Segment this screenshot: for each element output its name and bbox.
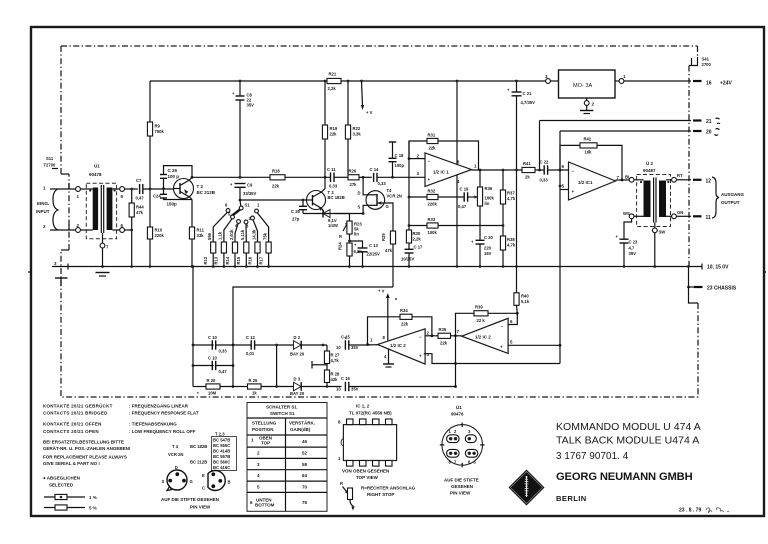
svg-text:R21: R21 [329,72,337,77]
svg-text:KOMMANDO MODUL U 474 A: KOMMANDO MODUL U 474 A [556,421,701,433]
svg-text:S11: S11 [46,156,54,161]
svg-text:21: 21 [706,119,712,125]
svg-text:556: 556 [207,232,212,240]
svg-text:BC 416C: BC 416C [213,465,230,470]
base line from C9 to T3 [240,199,307,201]
svg-text:C7: C7 [136,178,142,183]
+V arrow IC2 pin8 supply [378,289,397,341]
resistor R17 [258,232,271,268]
svg-text:INPUT: INPUT [36,209,50,214]
svg-text:BC 547B: BC 547B [213,438,230,443]
svg-text:C 10: C 10 [208,335,218,340]
T4 gate wire to R29 [385,203,394,231]
Neumann diamond logo [509,470,545,506]
svg-text:47k: 47k [136,210,144,215]
svg-text:T 2: T 2 [197,184,204,189]
svg-text:22k: 22k [429,146,437,151]
capacitor C22 [540,160,569,183]
svg-text:R41: R41 [523,161,531,166]
svg-text:−: − [419,335,422,340]
svg-text:*: * [197,391,199,396]
svg-text:GEORG NEUMANN GMBH: GEORG NEUMANN GMBH [556,471,693,483]
capacitor C9 [230,176,256,200]
svg-text:22k: 22k [330,132,338,137]
svg-text:G: G [386,204,389,209]
transformer pin 5 [120,187,138,199]
resistor R30 [406,226,421,250]
IC2a pin2 line / resistor R35 [425,327,462,346]
svg-text:C 21: C 21 [523,91,533,96]
svg-text:+ V: + V [378,289,385,294]
svg-text:27p: 27p [292,217,300,222]
resistor R16 [247,229,260,268]
svg-text:+24V: +24V [720,81,732,87]
wire 20 vertical to IC amp nodes [559,131,562,345]
svg-text:R40: R40 [521,294,529,299]
diode D3 BAY20 [290,377,342,397]
svg-text:3,3k: 3,3k [353,132,362,137]
node 2 input terminal [43,223,93,232]
svg-text:4,7k: 4,7k [331,358,340,363]
transistor types list [168,432,237,471]
svg-text:R44: R44 [136,205,144,210]
svg-text:R 27: R 27 [331,353,341,358]
svg-text:TL 072(RC 4559 NB): TL 072(RC 4559 NB) [349,411,392,416]
IC1,2 type caption [349,404,392,416]
op-amp IC1b [562,162,620,200]
svg-text:2,61k: 2,61k [229,229,234,240]
capacitor C14 [370,167,426,186]
svg-text:100k: 100k [428,230,438,235]
svg-text:BC 182B: BC 182B [328,195,345,200]
svg-text:16k: 16k [585,150,593,155]
terminal 10,15 0V [702,264,729,271]
date and signature [679,508,729,514]
transformer U1 90478 [86,163,119,239]
svg-text:GAIN(dB): GAIN(dB) [290,427,311,432]
T2 collector line [192,176,330,178]
legend 5% resistor [44,505,97,511]
capacitor C8 [232,80,254,178]
svg-text:C: C [202,486,205,491]
svg-text:C 26: C 26 [291,209,301,214]
svg-text:4,7: 4,7 [629,246,635,251]
svg-text:R24: R24 [338,242,343,250]
resistor R22 [345,80,361,175]
svg-text:C 14: C 14 [370,167,380,172]
svg-text:12: 12 [706,179,712,185]
brace AUSGANG OUTPUT [712,177,745,218]
svg-text:FOR REPLACEMENT PLEASE ALWA: FOR REPLACEMENT PLEASE ALWAYS [43,455,127,460]
terminal WS [623,211,644,219]
module boundary dash-dot [61,46,698,397]
svg-text:S: S [358,205,361,210]
svg-text:11: 11 [706,215,712,221]
terminal RT [666,173,691,182]
svg-text:16: 16 [706,81,712,87]
node 1 input terminal [43,183,93,199]
svg-text:R32: R32 [428,189,436,194]
svg-text:R22: R22 [353,126,361,131]
oscillator loop wire to D3 line [454,336,457,388]
svg-text:VERSTÄRK.: VERSTÄRK. [289,420,315,426]
svg-text:Ü 2: Ü 2 [646,160,654,166]
connector caption [444,478,479,496]
svg-text:BC 212B: BC 212B [190,460,207,465]
svg-text:35V: 35V [247,103,255,108]
svg-text:750k: 750k [155,129,165,134]
svg-text:23 . 8 . 79: 23 . 8 . 79 [679,508,701,514]
resistor R20 10M [193,378,248,396]
resistor R18 [270,169,285,189]
svg-text:4,7k: 4,7k [507,196,516,201]
title block text [556,421,701,503]
svg-text:0,33: 0,33 [378,181,387,186]
svg-text:STELLUNG: STELLUNG [252,421,277,426]
svg-text:VCR 2N: VCR 2N [387,194,402,199]
svg-text:R33: R33 [428,217,436,222]
T4 source wire [334,205,367,215]
svg-text:R18: R18 [272,169,280,174]
svg-text:C24: C24 [153,194,161,199]
svg-text:1,1k: 1,1k [218,231,223,240]
transistor T3 BC182B [307,177,345,213]
svg-text:C 19: C 19 [460,187,470,192]
svg-text:−: − [572,169,575,174]
svg-text:IC 1, 2: IC 1, 2 [356,404,370,409]
switch S1 rotary [225,199,260,229]
zener diode D1 9,1V [303,210,338,229]
svg-text:PIN VIEW: PIN VIEW [190,505,211,510]
svg-text:33/35V: 33/35V [243,191,256,196]
svg-text:27k: 27k [350,182,358,187]
svg-text:R31: R31 [428,133,436,138]
svg-text:1/2 IC 1: 1/2 IC 1 [433,170,449,175]
svg-text:BL: BL [625,175,631,180]
terminal 21 [540,118,721,125]
svg-text:R: R [339,234,342,239]
terminal 16 +24V [693,81,732,87]
svg-text:R12: R12 [203,256,208,264]
ground below transformer [96,265,110,276]
svg-text:0,47: 0,47 [458,204,467,209]
svg-text:14,3k: 14,3k [251,229,256,240]
svg-text:+: + [572,189,575,194]
svg-text:B: B [228,480,231,485]
svg-text:AUSGANG: AUSGANG [721,192,745,197]
svg-text:C 23: C 23 [629,240,639,245]
potentiometer legend R [340,481,355,511]
svg-text:WS: WS [623,211,630,216]
svg-text:AUF DIE STIFTE: AUF DIE STIFTE [444,478,479,483]
svg-text:0,47: 0,47 [219,369,228,374]
svg-text:Ü1: Ü1 [94,163,100,169]
svg-text:C 20: C 20 [484,235,494,240]
svg-text:90487: 90487 [643,168,656,173]
resistor R39 feedback [456,305,519,336]
notes text block contacts 20/21 [43,403,199,435]
svg-text:R17: R17 [258,256,263,264]
svg-text:2700: 2700 [702,62,712,67]
resistor R27 47k [324,345,340,370]
svg-text:+: + [428,177,431,182]
IC2b pin5 wire [508,344,560,346]
svg-text:+: + [419,354,422,359]
svg-text:Ü1: Ü1 [456,404,462,410]
svg-text:22k: 22k [272,184,280,189]
svg-text:R30: R30 [413,231,421,236]
left feed vertical to filter network [192,265,195,386]
svg-text:BOTTOM: BOTTOM [255,503,275,508]
terminal 11 [693,215,711,221]
IC DIP package top view [338,419,397,466]
svg-text:R39: R39 [475,305,483,310]
IC1a output line [472,169,541,172]
wire 21 vertical to R41/C22 node [539,121,541,171]
resistor R12 [203,232,216,268]
svg-text:35V: 35V [629,251,637,256]
svg-text:22k: 22k [401,322,409,327]
legend selected [43,476,80,488]
svg-text:C 13: C 13 [369,243,379,248]
terminal 3 / 0V rail [52,261,702,270]
svg-text:SW: SW [659,230,666,235]
chassis ground at input [55,278,68,286]
diode D2 BAY20 [290,335,327,357]
svg-text:E: E [202,473,205,478]
svg-text:R9: R9 [155,124,161,129]
resistor R28 [324,370,340,388]
0V rail junction dots [130,265,193,268]
capacitor C11 [327,167,338,189]
terminal 23 chassis [687,265,737,303]
IC1b output wire to BL [616,179,630,181]
svg-text:: FREQUENZGANG LINEAR: : FREQUENZGANG LINEAR [129,404,189,409]
svg-text:AUF DIE STIFTE GESEHEN: AUF DIE STIFTE GESEHEN [161,497,219,502]
svg-text:POSITION: POSITION [252,427,274,432]
svg-text:−: − [501,324,504,329]
resistor R31 feedback [409,133,479,171]
junction vertical between filter lines [275,344,278,388]
capacitor C10 (0,33) [193,335,233,354]
IC2a pin3 wire [424,344,562,364]
svg-text:20: 20 [706,130,712,136]
IC2a output wire to filter [367,344,378,346]
capacitor C24 [153,189,192,207]
svg-text:16V: 16V [484,251,492,256]
capacitor C18 [389,142,405,177]
T4 drain wire [363,177,366,195]
svg-text:R10: R10 [155,228,163,233]
svg-text:C 22: C 22 [540,160,550,165]
svg-text:OUTPUT: OUTPUT [721,200,740,205]
svg-text:RT: RT [677,173,683,178]
svg-text:52: 52 [302,451,308,456]
svg-text:C 25: C 25 [168,168,178,173]
op-amp IC2a [370,329,430,364]
svg-text:VON OBEN GESEHEN: VON OBEN GESEHEN [342,469,389,474]
svg-text:70: 70 [302,485,308,490]
resistor R37 [500,170,515,236]
svg-text:22/25V: 22/25V [367,252,380,257]
svg-text:1k: 1k [252,391,257,396]
capacitor C20 [471,235,494,268]
svg-text:S41: S41 [702,57,710,62]
svg-text:R16: R16 [247,256,252,264]
transistor T2,3 pin view [202,471,231,491]
capacitor C19 [458,187,472,210]
svg-text:2,2k: 2,2k [413,237,422,242]
transistor T4 VCR2N [358,188,402,210]
svg-text:+: + [500,345,503,350]
capacitor C10 (0,47) [193,356,233,375]
svg-text:220: 220 [484,246,492,251]
svg-text:10: 10 [336,387,341,392]
DIP caption [342,469,389,481]
svg-text:R42: R42 [584,137,592,142]
capacitor C15 [336,335,370,351]
svg-text:BC 560C: BC 560C [213,460,230,465]
svg-text:4,7/35V: 4,7/35V [521,100,536,105]
resistor R32 [408,141,464,226]
svg-text:+ V: + V [366,110,373,115]
svg-text:● ABGEGLICHEN: ● ABGEGLICHEN [43,476,80,481]
svg-text:R 25: R 25 [249,378,259,383]
capacitor C26 [291,199,307,222]
svg-text:R 20: R 20 [207,378,217,383]
connector S11 T2700 [44,156,59,169]
svg-text:47k: 47k [385,248,393,253]
resistor R10 [147,227,164,267]
svg-text:R11: R11 [197,228,205,233]
svg-text:CONTACTS 20/21 BRIDGED: CONTACTS 20/21 BRIDGED [43,411,108,416]
svg-text:64: 64 [302,473,308,478]
svg-text:KONTAKTE 20/21 OFFEN: KONTAKTE 20/21 OFFEN [43,422,102,427]
svg-text:5,11k: 5,11k [240,229,245,240]
svg-text:GESEHEN: GESEHEN [451,484,473,489]
svg-text:lin: lin [485,201,490,206]
svg-text:D: D [358,191,361,196]
svg-text:−: − [428,159,431,164]
svg-text:BC 414B: BC 414B [213,449,230,454]
+V arrow (supply tap) [360,80,373,115]
svg-text:100k: 100k [485,196,495,201]
svg-text:C 10: C 10 [208,356,218,361]
svg-text:220k: 220k [155,233,165,238]
svg-text:GERÄT-NR. U. POS.-ZAHLEN ANGE: GERÄT-NR. U. POS.-ZAHLEN ANGEBEN! [43,445,131,451]
svg-text:23 CHASSIS: 23 CHASSIS [707,286,737,292]
connector S41 2700 [689,57,711,68]
svg-text:S: S [162,479,165,484]
resistor R9 [147,81,164,227]
svg-text:4,7k: 4,7k [507,243,516,248]
capacitor C13 [350,241,380,268]
svg-text:R14: R14 [225,256,230,264]
svg-text:3 1767 90701. 4: 3 1767 90701. 4 [556,451,629,462]
svg-text:58: 58 [302,462,308,467]
svg-text:10M: 10M [208,391,217,396]
svg-text:lin: lin [354,232,359,237]
transistor T2 BC212B [173,177,216,199]
terminal BL [625,175,644,183]
svg-text:C 16: C 16 [341,376,351,381]
capacitor C7 [136,178,174,201]
notes text block replacement [43,440,131,467]
potentiometer R36 100k lin [472,170,494,240]
svg-text:100 p: 100 p [168,174,180,179]
svg-text:1/2 IC 2: 1/2 IC 2 [390,343,406,348]
svg-text:C 11: C 11 [327,167,336,172]
svg-text:SWITCH S1: SWITCH S1 [270,411,295,416]
svg-text:T4: T4 [387,188,393,193]
svg-text:TOP VIEW: TOP VIEW [356,475,379,480]
+24V supply rail [150,80,546,82]
svg-text:SELECTED: SELECTED [49,483,74,488]
IC1a power pin wires [456,80,459,268]
svg-text:GN: GN [677,210,683,215]
EING INPUT label [36,189,58,230]
svg-text:R29: R29 [381,233,386,241]
svg-text:35V: 35V [351,345,359,350]
resistor R21 [327,72,341,92]
svg-text:33k: 33k [197,233,205,238]
resistor R13 [214,231,227,268]
transistor T4 pin view [162,465,193,491]
IC2a ground stub [383,350,394,368]
svg-text:TOP: TOP [261,441,270,446]
svg-text:R=RECHTER ANSCHLAG: R=RECHTER ANSCHLAG [361,486,416,491]
svg-text:: FREQUENCY RESPONSE FLAT: : FREQUENCY RESPONSE FLAT [129,411,199,416]
voltage regulator MO-3A [545,70,691,98]
svg-text:0,33: 0,33 [540,178,549,183]
svg-text:MO- 3A: MO- 3A [573,83,593,89]
svg-text:0,33: 0,33 [219,349,228,354]
potentiometer R23 5k lin [334,214,362,243]
svg-text:42k: 42k [331,377,339,382]
svg-text:KONTAKTE 20/21 GEBRÜCKT: KONTAKTE 20/21 GEBRÜCKT [43,403,113,409]
resistor R29 [381,231,396,287]
svg-text:2k: 2k [525,175,530,180]
svg-text:46: 46 [302,439,308,444]
connector U1 90476 caption [451,404,464,417]
svg-text:R13: R13 [214,256,219,264]
capacitor C12 [233,335,294,356]
svg-text:GIVE SERIAL & PART NO !: GIVE SERIAL & PART NO ! [43,461,100,466]
capacitor C16 [336,376,455,392]
svg-text:RIGHT STOP: RIGHT STOP [367,492,394,497]
svg-text:R19: R19 [330,126,338,131]
svg-text:1/4W: 1/4W [328,223,338,228]
op-amp IC1a [417,153,478,187]
svg-text:2,2k: 2,2k [328,86,337,91]
capacitor C23 [616,219,639,268]
svg-text:10, 15 0V: 10, 15 0V [707,265,729,271]
svg-text:BC 182B: BC 182B [190,444,207,449]
pin view caption left [161,497,219,510]
terminal 20 [560,129,720,136]
resistor R34 feedback [366,308,433,346]
transformer pin 7 center tap [100,233,109,267]
potentiometer legend caption [361,486,416,498]
svg-text:0,33: 0,33 [329,184,338,189]
svg-text:150p: 150p [167,202,178,207]
IC1a pin2 input stub [408,157,425,160]
resistor R42 feedback [559,137,624,182]
svg-text:90476: 90476 [451,412,464,417]
control line node wire y287 [232,287,393,388]
terminal 12 [693,179,711,185]
resistor R40 5,1k [514,265,530,313]
